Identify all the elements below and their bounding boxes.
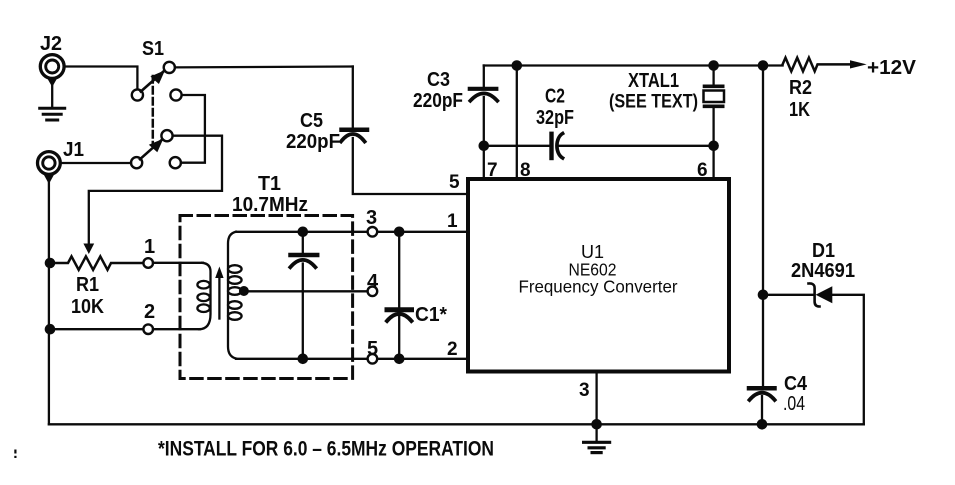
- T1 primary winding: [199, 263, 211, 329]
- svg-text:10.7MHz: 10.7MHz: [232, 194, 308, 216]
- top supply rail: [484, 64, 783, 66]
- wire S1 right contacts tie: [181, 95, 205, 163]
- node pin3/rail junction: [591, 419, 602, 430]
- svg-text:5: 5: [449, 172, 460, 193]
- svg-text:32pF: 32pF: [536, 107, 574, 129]
- node XTAL top: [708, 60, 719, 71]
- svg-text:2: 2: [144, 301, 155, 323]
- wire pin1 to primary: [153, 262, 203, 264]
- node C3 top: [512, 60, 523, 71]
- svg-text:C3: C3: [427, 69, 450, 91]
- wire secondary bottom to pin5: [236, 358, 367, 360]
- svg-text:+12V: +12V: [867, 57, 917, 79]
- resistor R2: [783, 58, 851, 72]
- S1 pole A contacts: [132, 89, 143, 100]
- svg-text:220pF: 220pF: [286, 131, 340, 153]
- node T1 center tap: [239, 286, 249, 296]
- svg-text:S1: S1: [142, 38, 164, 60]
- node C1 bottom: [394, 354, 405, 365]
- svg-text:C2: C2: [545, 86, 565, 108]
- svg-text:3: 3: [579, 380, 590, 401]
- resistor R1: [50, 256, 144, 269]
- svg-text:C4: C4: [784, 373, 808, 395]
- wire +12 branch down: [762, 66, 764, 387]
- R1 wiper arrow: [83, 244, 94, 255]
- node R2 left / D1 branch: [758, 60, 769, 71]
- T1 core adjust arrow: [218, 278, 220, 319]
- svg-text:1K: 1K: [789, 99, 810, 121]
- wire S1 pole B to R1 wiper: [89, 136, 222, 245]
- T1 tuning capacitor: [302, 232, 304, 253]
- svg-text:8: 8: [520, 160, 531, 181]
- svg-text:R1: R1: [76, 274, 99, 296]
- wire U1 pin3 to ground rail: [595, 372, 597, 424]
- node tuning cap top: [298, 227, 309, 238]
- ground (J2): [40, 107, 65, 110]
- svg-text:2: 2: [447, 339, 458, 360]
- svg-text:C1*: C1*: [415, 304, 447, 326]
- wire pin2 row: [50, 328, 200, 330]
- svg-text:10K: 10K: [71, 296, 104, 318]
- svg-text:T1: T1: [258, 173, 281, 195]
- svg-text:J2: J2: [40, 33, 62, 55]
- svg-text:1: 1: [144, 236, 155, 258]
- wire center tap to pin4: [242, 290, 368, 292]
- wire J1 to S1: [61, 162, 131, 164]
- node C3/C2 junction: [479, 141, 490, 152]
- S1 pole B lever: [140, 139, 162, 159]
- svg-text:1: 1: [447, 211, 458, 232]
- wire J2 to ground: [51, 80, 53, 108]
- scan speck marks: [14, 450, 16, 454]
- wire U1 pin8: [516, 66, 518, 179]
- svg-text:D1: D1: [812, 240, 835, 262]
- S1 pole B contacts: [161, 130, 172, 141]
- T1 secondary winding: [228, 232, 236, 359]
- wire J2 to S1: [65, 67, 137, 90]
- wire J1 down left rail: [48, 177, 50, 424]
- svg-text:.04: .04: [783, 393, 805, 415]
- svg-text:*INSTALL FOR 6.0 – 6.5MHz OPER: *INSTALL FOR 6.0 – 6.5MHz OPERATION: [158, 438, 494, 461]
- svg-text:(SEE TEXT): (SEE TEXT): [609, 92, 698, 113]
- S1 pole A lever: [141, 71, 164, 92]
- svg-text:2N4691: 2N4691: [791, 260, 855, 282]
- S1 mechanical linkage (dashed): [152, 76, 155, 147]
- wire S1 throw A to C5: [175, 65, 353, 68]
- svg-text:6: 6: [697, 160, 708, 181]
- svg-text:J1: J1: [63, 139, 84, 161]
- node R1 bottom junction: [45, 324, 56, 335]
- transformer T1 dashed box: [180, 216, 353, 379]
- wire pin3 to U1 pin1: [377, 231, 467, 233]
- node C4 bottom: [757, 419, 768, 430]
- node tuning cap bottom: [298, 354, 309, 365]
- ground (U1 pin3): [595, 424, 597, 441]
- capacitor C1: [398, 232, 400, 307]
- node D1 left junction: [758, 290, 769, 301]
- connector J1: [38, 152, 61, 175]
- node R1 top junction: [45, 258, 56, 269]
- svg-text:C5: C5: [300, 110, 323, 132]
- svg-text:R2: R2: [789, 77, 812, 99]
- svg-text:Frequency Converter: Frequency Converter: [519, 277, 678, 297]
- bottom rail: [49, 423, 864, 425]
- svg-text:220pF: 220pF: [413, 90, 463, 112]
- IC U1: [468, 179, 729, 372]
- svg-text:7: 7: [487, 160, 498, 181]
- svg-text:XTAL1: XTAL1: [628, 70, 679, 92]
- svg-text:3: 3: [366, 207, 377, 229]
- node XTAL bottom / U1 pin6: [708, 141, 719, 152]
- connector J2: [40, 55, 64, 79]
- wire secondary top to pin3: [236, 231, 367, 233]
- node C1 top: [394, 227, 405, 238]
- wire pin5 to U1 pin2: [377, 358, 467, 360]
